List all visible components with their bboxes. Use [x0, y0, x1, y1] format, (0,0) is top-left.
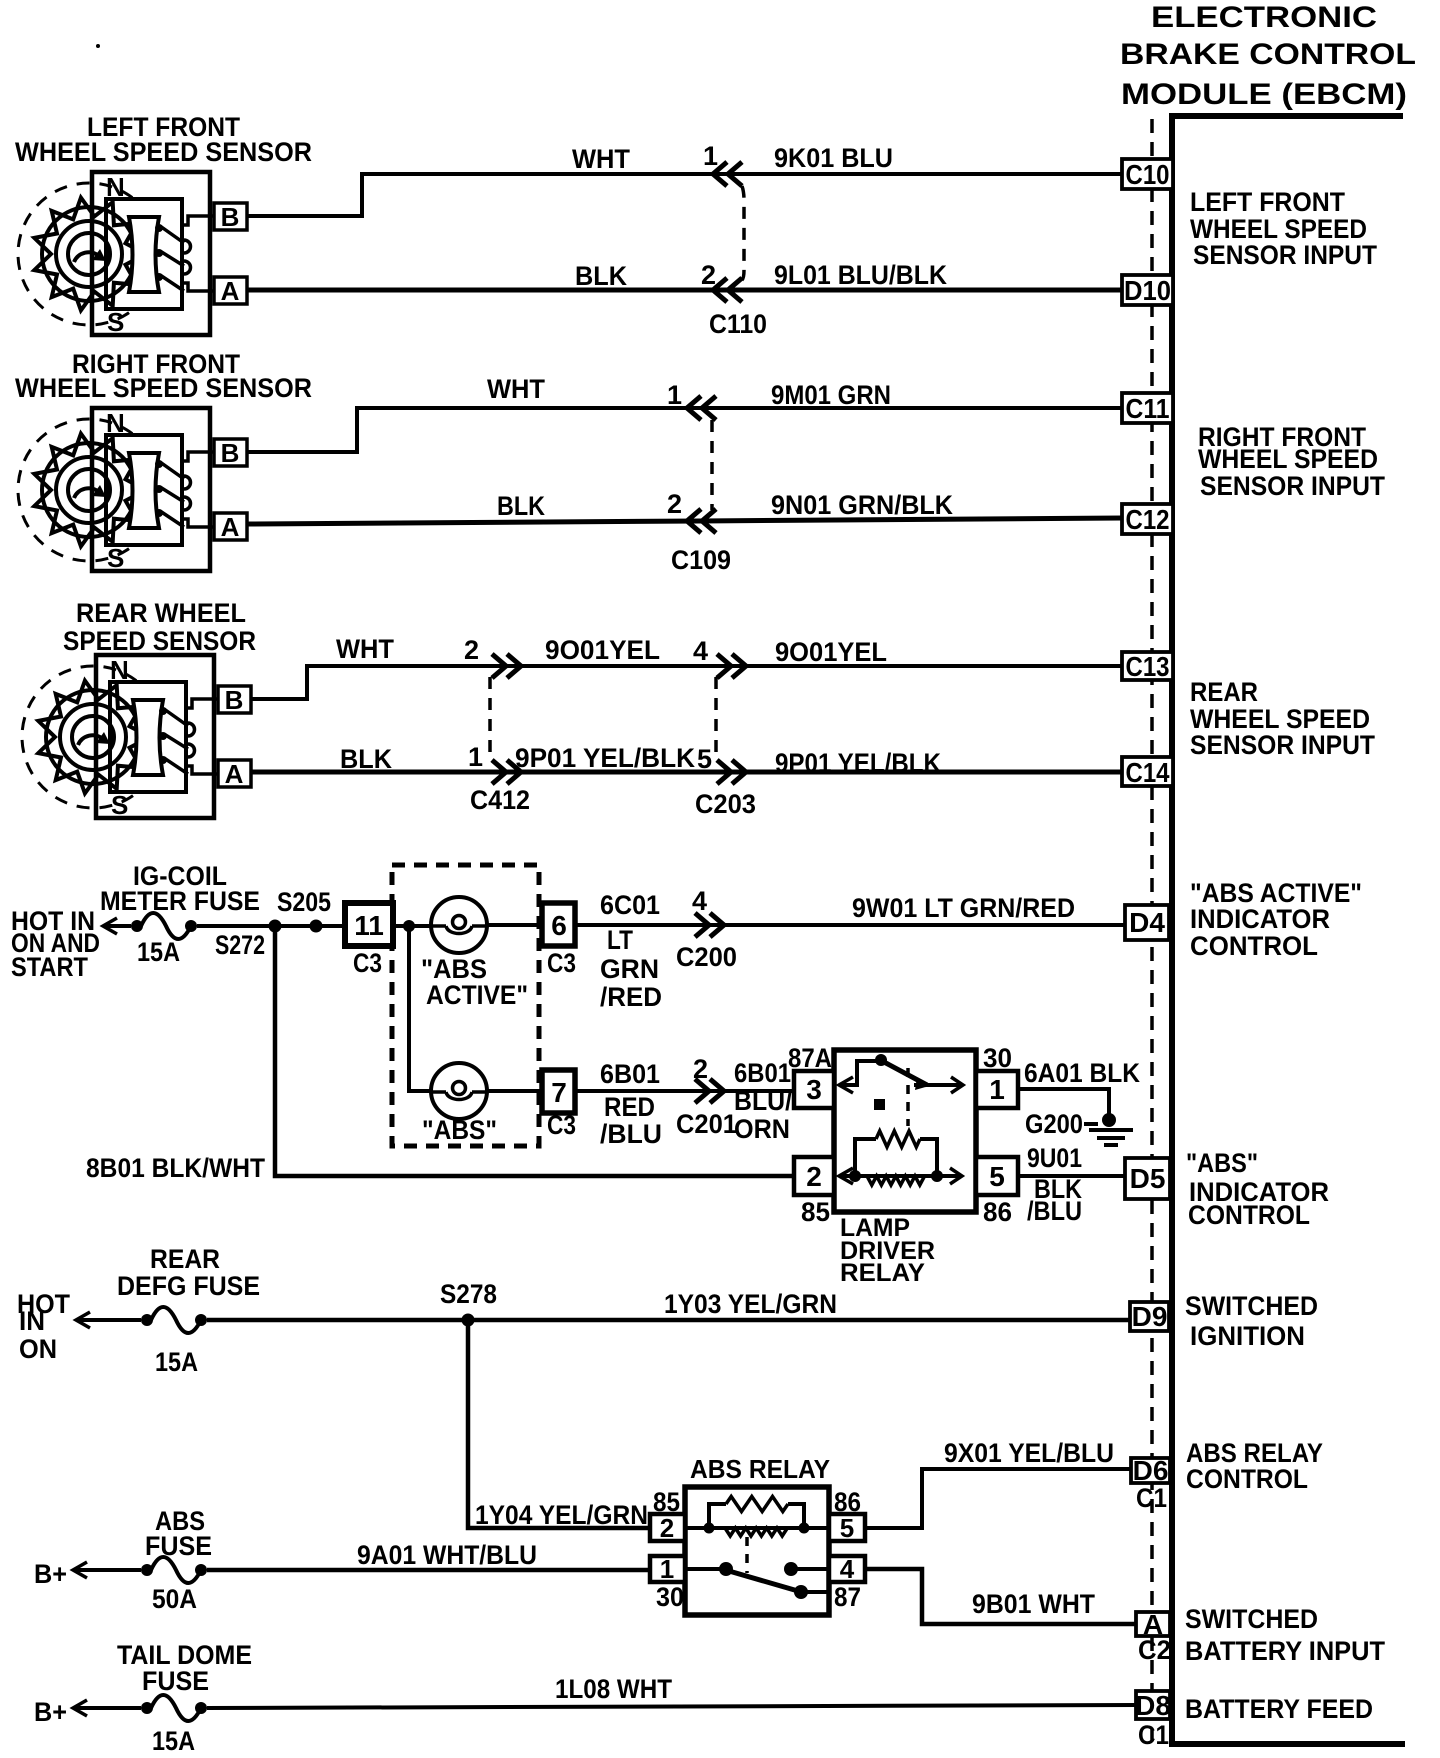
svg-text:RED: RED: [604, 1092, 655, 1122]
splice S272: [269, 920, 282, 933]
indicator cluster dashed box: [392, 865, 539, 1146]
svg-text:9O01YEL: 9O01YEL: [545, 635, 660, 665]
svg-text:C3: C3: [547, 1110, 576, 1140]
connector 7 box: [542, 1070, 575, 1113]
svg-text:ON: ON: [19, 1334, 57, 1364]
svg-text:SWITCHED: SWITCHED: [1185, 1291, 1318, 1321]
svg-text:9P01 YEL/BLK: 9P01 YEL/BLK: [515, 743, 695, 773]
svg-text:WHT: WHT: [336, 634, 394, 664]
connector C412 pin 1 chevron: [492, 760, 521, 784]
connector C203 pin 5 chevron: [717, 760, 746, 784]
svg-text:C14: C14: [1126, 757, 1170, 788]
svg-text:WHEEL SPEED SENSOR: WHEEL SPEED SENSOR: [15, 137, 312, 167]
svg-text:30: 30: [983, 1043, 1012, 1073]
svg-text:2: 2: [693, 1054, 708, 1084]
svg-text:SENSOR INPUT: SENSOR INPUT: [1200, 471, 1385, 501]
svg-text:DEFG FUSE: DEFG FUSE: [117, 1271, 260, 1301]
EBCM pin C14: [1122, 757, 1173, 786]
svg-text:/RED: /RED: [600, 982, 662, 1012]
svg-text:C412: C412: [470, 785, 530, 815]
svg-text:1: 1: [703, 141, 718, 171]
connector C110 pin 1 chevron: [713, 162, 742, 186]
svg-text:IN: IN: [19, 1306, 45, 1336]
wire RF B WHT: [247, 408, 1122, 452]
svg-text:ACTIVE": ACTIVE": [426, 980, 528, 1010]
connector C109 pin 2 chevron: [687, 509, 716, 533]
EBCM pin D6: [1131, 1458, 1170, 1483]
svg-text:5: 5: [697, 744, 712, 774]
wire fuse to D9: [207, 1318, 1130, 1323]
EBCM module box bottom edge: [1172, 1741, 1405, 1747]
svg-text:9N01 GRN/BLK: 9N01 GRN/BLK: [771, 490, 953, 520]
wire 11 box to ABS ACTIVE lamp: [393, 924, 431, 928]
connector 11 box: [345, 903, 393, 946]
svg-text:SWITCHED: SWITCHED: [1185, 1604, 1318, 1634]
svg-text:WHEEL SPEED: WHEEL SPEED: [1198, 444, 1378, 474]
wire 7 box to relay pin 3: [575, 1089, 794, 1093]
svg-text:86: 86: [983, 1197, 1012, 1227]
svg-text:86: 86: [834, 1487, 861, 1517]
wire rear A BLK: [251, 770, 1122, 775]
wire ABS relay pin5 to D6: [865, 1469, 1131, 1528]
svg-text:15A: 15A: [137, 937, 180, 967]
svg-text:85: 85: [653, 1487, 680, 1517]
svg-text:9A01 WHT/BLU: 9A01 WHT/BLU: [357, 1540, 537, 1570]
svg-text:6C01: 6C01: [600, 890, 660, 920]
svg-text:FUSE: FUSE: [142, 1666, 209, 1696]
svg-text:D9: D9: [1132, 1301, 1168, 1332]
svg-text:/BLU: /BLU: [1027, 1196, 1082, 1226]
svg-text:C3: C3: [353, 948, 382, 978]
wire S278 down to ABS relay pin 2: [468, 1320, 650, 1528]
EBCM pin D4: [1125, 905, 1169, 940]
ground G200: [1102, 1113, 1116, 1127]
svg-text:C201: C201: [676, 1109, 737, 1139]
svg-text:9K01 BLU: 9K01 BLU: [774, 143, 893, 173]
svg-text:ELECTRONIC: ELECTRONIC: [1151, 1, 1377, 34]
svg-text:C110: C110: [709, 309, 767, 339]
svg-text:MODULE (EBCM): MODULE (EBCM): [1121, 78, 1407, 111]
svg-text:METER FUSE: METER FUSE: [100, 886, 260, 916]
connector C203 pin 4 chevron: [717, 654, 746, 678]
connector C200 chevron: [695, 913, 724, 937]
IG-COIL METER fuse: [131, 913, 197, 939]
svg-text:2: 2: [660, 1513, 674, 1543]
svg-text:RELAY: RELAY: [840, 1259, 925, 1287]
EBCM pin D10: [1122, 275, 1173, 305]
connector C412 pin 2 chevron: [492, 654, 521, 678]
EBCM pin C13: [1122, 652, 1173, 680]
hot feed arrow: [76, 1312, 90, 1328]
svg-text:5: 5: [840, 1513, 854, 1543]
wire relay pin1 to ground: [1018, 1089, 1109, 1114]
splice S205: [310, 920, 323, 933]
svg-text:C1: C1: [1136, 1483, 1167, 1513]
rear wheel speed sensor: [22, 655, 251, 820]
svg-text:D6: D6: [1133, 1455, 1169, 1486]
svg-text:7: 7: [551, 1077, 567, 1108]
wire LF A BLK: [247, 288, 1122, 293]
svg-text:BLK: BLK: [497, 491, 545, 521]
svg-text:B+: B+: [34, 1559, 67, 1589]
EBCM pin A: [1136, 1612, 1170, 1636]
svg-text:4: 4: [693, 636, 708, 666]
lamp driver relay box: [834, 1050, 976, 1212]
svg-text:ABS RELAY: ABS RELAY: [690, 1454, 830, 1484]
svg-text:11: 11: [354, 910, 384, 941]
svg-text:8B01 BLK/WHT: 8B01 BLK/WHT: [86, 1153, 265, 1183]
ABS relay dashed link: [745, 1537, 749, 1573]
svg-text:15A: 15A: [155, 1347, 198, 1377]
connector 6 box: [542, 903, 575, 946]
svg-text:1Y03 YEL/GRN: 1Y03 YEL/GRN: [664, 1289, 837, 1319]
battery arrow: [73, 1562, 87, 1578]
wire lamp to 6 box: [487, 923, 542, 927]
wire relay pin5 to D5: [1018, 1174, 1125, 1178]
splice S278: [462, 1314, 475, 1327]
svg-text:1: 1: [660, 1554, 674, 1584]
svg-text:2: 2: [701, 260, 716, 290]
EBCM internal dashed line: [1150, 119, 1154, 1741]
svg-text:SPEED SENSOR: SPEED SENSOR: [63, 626, 256, 656]
wire lamp to 7 box: [487, 1089, 542, 1093]
svg-text:BATTERY FEED: BATTERY FEED: [1185, 1694, 1373, 1724]
relay pin 5 box: [829, 1514, 865, 1541]
connector C203 dashed link: [714, 677, 718, 760]
svg-text:/BLU: /BLU: [600, 1119, 662, 1149]
wire fuse to ABS relay pin 1: [207, 1568, 650, 1573]
svg-text:ORN: ORN: [734, 1114, 790, 1144]
svg-text:2: 2: [806, 1161, 822, 1192]
wire fuse to 11 box: [197, 924, 345, 928]
relay coil upper branch resistor: [855, 1139, 876, 1176]
wire fuse to D8: [207, 1705, 1136, 1708]
relay switch fixed contact: [874, 1099, 885, 1110]
svg-text:LT: LT: [607, 925, 633, 955]
relay pin 2 box: [794, 1157, 834, 1195]
svg-text:6: 6: [551, 910, 567, 941]
wire 8B01 from S272 down to relay pin 2: [275, 926, 794, 1176]
svg-text:9W01 LT GRN/RED: 9W01 LT GRN/RED: [852, 893, 1075, 923]
svg-text:1: 1: [667, 380, 682, 410]
svg-text:SENSOR INPUT: SENSOR INPUT: [1190, 730, 1375, 760]
svg-text:WHEEL SPEED SENSOR: WHEEL SPEED SENSOR: [15, 373, 312, 403]
svg-text:IGNITION: IGNITION: [1190, 1321, 1305, 1351]
EBCM module box left edge: [1169, 113, 1175, 1747]
connector C110 dashed link: [742, 186, 744, 280]
connector C109 dashed link: [710, 420, 714, 510]
ABS relay switch: [685, 1567, 722, 1571]
ABS relay coil wire: [685, 1526, 829, 1530]
EBCM pin D8: [1136, 1691, 1170, 1719]
svg-text:1: 1: [468, 742, 483, 772]
svg-text:BLK: BLK: [575, 261, 627, 291]
EBCM pin C11: [1122, 393, 1173, 423]
svg-text:LEFT FRONT: LEFT FRONT: [1190, 187, 1345, 217]
svg-text:D8: D8: [1135, 1690, 1171, 1721]
svg-text:1Y04 YEL/GRN: 1Y04 YEL/GRN: [475, 1500, 648, 1530]
EBCM pin C10: [1122, 159, 1173, 189]
svg-text:9M01 GRN: 9M01 GRN: [771, 380, 891, 410]
relay pin 5 box: [976, 1157, 1018, 1195]
ABS ACTIVE indicator lamp: [431, 897, 487, 953]
svg-text:FUSE: FUSE: [145, 1531, 212, 1561]
EBCM pin D5: [1125, 1158, 1170, 1199]
wire rear B WHT: [251, 666, 1122, 699]
svg-text:B+: B+: [34, 1697, 67, 1727]
relay switch armature: [841, 1061, 877, 1085]
svg-text:SENSOR INPUT: SENSOR INPUT: [1193, 240, 1377, 270]
svg-text:BATTERY INPUT: BATTERY INPUT: [1185, 1636, 1385, 1666]
connector C110 pin 2 chevron: [713, 278, 742, 302]
svg-text:9O01YEL: 9O01YEL: [775, 637, 887, 667]
svg-text:2: 2: [667, 489, 682, 519]
relay switch dashed link: [906, 1068, 910, 1126]
svg-text:87A: 87A: [788, 1043, 832, 1073]
svg-text:1L08 WHT: 1L08 WHT: [555, 1674, 672, 1704]
svg-text:C12: C12: [1126, 504, 1170, 535]
svg-text:"ABS": "ABS": [1186, 1148, 1258, 1178]
svg-text:30: 30: [656, 1582, 684, 1612]
svg-text:D5: D5: [1130, 1163, 1166, 1194]
wire ABS relay pin4 to A: [865, 1569, 1136, 1624]
svg-text:INDICATOR: INDICATOR: [1190, 904, 1330, 934]
svg-text:CONTROL: CONTROL: [1190, 931, 1318, 961]
left front wheel speed sensor: [18, 172, 247, 337]
svg-text:4: 4: [840, 1554, 855, 1584]
svg-text:C3: C3: [547, 948, 576, 978]
svg-text:9L01 BLU/BLK: 9L01 BLU/BLK: [774, 260, 947, 290]
svg-text:BRAKE CONTROL: BRAKE CONTROL: [1120, 38, 1416, 71]
EBCM pin D9: [1130, 1302, 1169, 1331]
svg-text:9B01 WHT: 9B01 WHT: [972, 1589, 1095, 1619]
svg-text:WHT: WHT: [487, 374, 545, 404]
ABS fuse: [141, 1557, 207, 1583]
svg-text:C203: C203: [695, 789, 756, 819]
EBCM module box top edge: [1169, 113, 1403, 119]
wire LF B WHT: [247, 174, 1122, 216]
svg-text:6B01: 6B01: [600, 1059, 660, 1089]
wire down to ABS lamp: [409, 926, 431, 1091]
svg-text:1: 1: [989, 1074, 1005, 1105]
ABS relay box: [685, 1487, 829, 1615]
svg-text:C10: C10: [1126, 159, 1170, 190]
svg-text:START: START: [11, 952, 88, 982]
svg-text:6B01: 6B01: [734, 1058, 791, 1088]
relay pin 2 box: [650, 1514, 685, 1541]
svg-text:REAR: REAR: [1190, 677, 1258, 707]
svg-text:3: 3: [806, 1074, 822, 1105]
svg-text:GRN: GRN: [600, 954, 659, 984]
wire arrow to fuse: [103, 924, 131, 928]
relay pin 1 box: [976, 1071, 1018, 1108]
ABS indicator lamp: [431, 1063, 487, 1119]
connector C109 pin 1 chevron: [687, 396, 716, 420]
svg-text:87: 87: [834, 1582, 861, 1612]
TAIL DOME fuse: [141, 1695, 207, 1721]
wire RF A BLK: [247, 518, 1122, 524]
stray dot top left: [96, 44, 100, 48]
ABS relay coil resistor branch: [709, 1504, 726, 1528]
relay coil lower wire: [841, 1174, 962, 1178]
svg-text:C11: C11: [1126, 393, 1170, 424]
relay pin 4 box: [829, 1556, 865, 1582]
svg-text:D4: D4: [1129, 907, 1165, 938]
svg-text:BLK: BLK: [340, 744, 392, 774]
svg-text:5: 5: [989, 1161, 1005, 1192]
svg-text:C109: C109: [671, 545, 731, 575]
right front wheel speed sensor: [18, 408, 247, 573]
svg-text:6A01 BLK: 6A01 BLK: [1024, 1058, 1140, 1088]
relay pin 1 box: [650, 1556, 685, 1582]
svg-text:WHT: WHT: [572, 144, 630, 174]
svg-text:4: 4: [692, 886, 707, 916]
hot feed arrow: [103, 918, 117, 934]
svg-text:"ABS": "ABS": [422, 1115, 497, 1145]
junction node: [403, 920, 415, 932]
svg-text:G200: G200: [1025, 1109, 1083, 1139]
connector C201 chevron: [695, 1079, 724, 1103]
svg-text:S205: S205: [277, 887, 331, 917]
EBCM pin C12: [1122, 504, 1173, 534]
wire 6 box to D4: [575, 923, 1125, 927]
svg-text:50A: 50A: [152, 1584, 197, 1614]
svg-text:D10: D10: [1124, 275, 1171, 306]
svg-text:REAR WHEEL: REAR WHEEL: [76, 598, 246, 628]
svg-text:15A: 15A: [152, 1726, 195, 1756]
svg-text:C2: C2: [1138, 1635, 1171, 1665]
svg-text:C200: C200: [676, 942, 737, 972]
svg-text:S272: S272: [215, 930, 265, 960]
svg-text:REAR: REAR: [150, 1244, 220, 1274]
svg-text:CONTROL: CONTROL: [1188, 1200, 1310, 1230]
svg-text:BLU/: BLU/: [734, 1086, 792, 1116]
svg-text:CONTROL: CONTROL: [1186, 1464, 1308, 1494]
svg-text:85: 85: [801, 1197, 830, 1227]
svg-text:9X01 YEL/BLU: 9X01 YEL/BLU: [944, 1438, 1114, 1468]
REAR DEFG fuse: [141, 1307, 207, 1333]
connector C412 dashed link: [488, 677, 492, 760]
svg-text:9P01 YEL/BLK: 9P01 YEL/BLK: [775, 748, 941, 778]
svg-text:C13: C13: [1126, 651, 1170, 682]
battery arrow: [73, 1700, 87, 1716]
relay pin 3 box: [794, 1071, 834, 1108]
svg-text:2: 2: [464, 635, 479, 665]
svg-text:S278: S278: [440, 1279, 497, 1309]
svg-text:9U01: 9U01: [1027, 1143, 1082, 1173]
svg-text:C1: C1: [1138, 1720, 1169, 1750]
